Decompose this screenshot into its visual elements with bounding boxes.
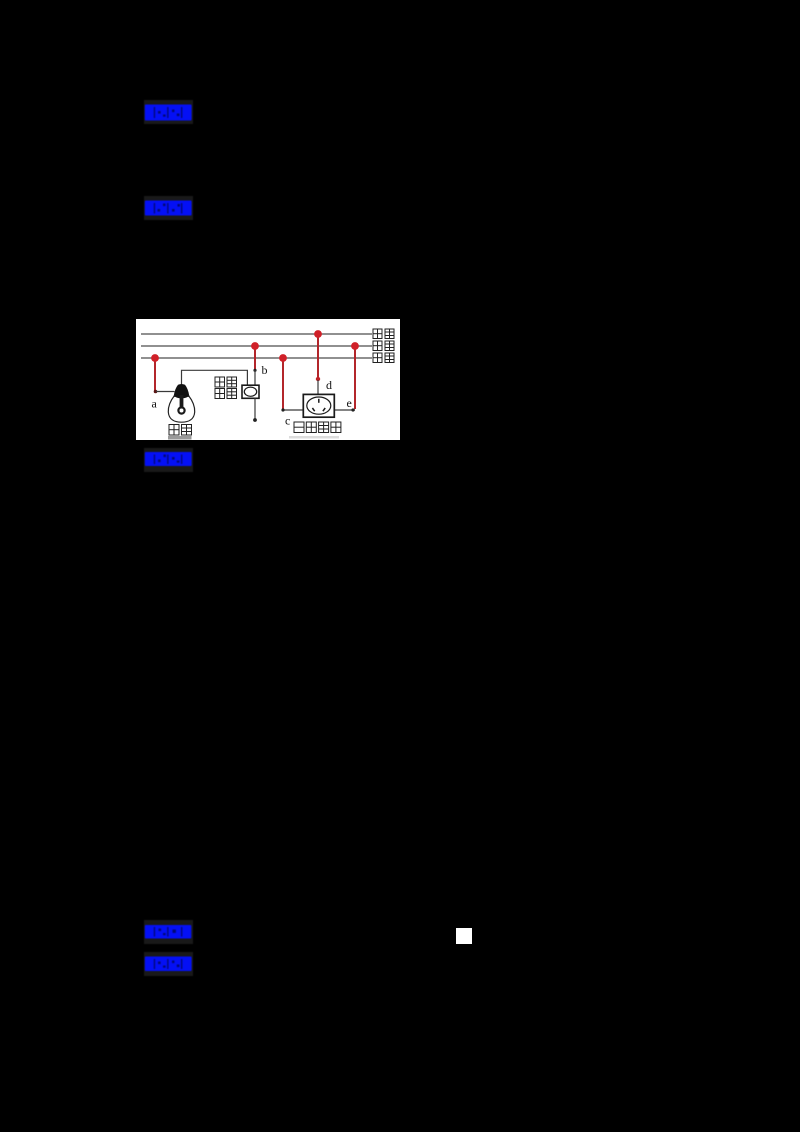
gray strip under socket label — [289, 436, 339, 439]
mains wire: neutral line (lingxian) — [141, 357, 372, 359]
three-hole socket box — [303, 394, 334, 417]
wire d dot to socket top — [317, 380, 319, 394]
bulb stem — [180, 395, 184, 408]
socket right slot — [323, 408, 325, 411]
svg-text:e: e — [347, 396, 352, 410]
red drop wire to node e — [354, 346, 356, 409]
junction dot on live (switch) — [251, 342, 259, 350]
svg-text:d: d — [326, 378, 332, 392]
node e dot — [351, 408, 354, 411]
label lingxian (neutral) — [373, 353, 394, 363]
top wire bulb to switch — [182, 370, 248, 385]
small red dot end of d wire — [316, 377, 320, 381]
svg-text:a: a — [152, 397, 158, 411]
pull switch knob — [244, 387, 256, 396]
label huoxian (live) — [373, 341, 394, 351]
label dengpao (bulb) — [169, 425, 192, 436]
pull cord end dot — [253, 418, 257, 422]
socket left slot — [312, 408, 314, 411]
label [jieda] blue tag 2 — [144, 196, 193, 220]
svg-text:c: c — [285, 414, 290, 428]
svg-text:b: b — [262, 363, 268, 377]
bulb cap — [173, 384, 189, 398]
gray strip under dengpao — [168, 436, 192, 440]
label sankong chazuo (3-hole socket) — [294, 422, 341, 433]
socket earth slot — [318, 399, 320, 403]
red drop wire to node d — [317, 334, 319, 378]
label dixian (ground) — [373, 329, 394, 339]
mains wire: live line (huoxian) — [141, 345, 372, 347]
wire node b into switch — [254, 370, 256, 385]
label lashian kaiguan (pull switch) — [215, 377, 237, 399]
junction dot on neutral (socket) — [279, 354, 287, 362]
bulb glass — [168, 396, 194, 423]
junction dot on ground — [314, 330, 322, 338]
label [dianping] blue tag 3 — [144, 448, 193, 472]
pull switch box — [242, 385, 259, 398]
red drop wire to node c — [282, 358, 284, 409]
red drop wire to node b — [254, 346, 256, 369]
label [fenxi] blue tag 1 — [144, 100, 193, 124]
node b dot — [253, 369, 256, 372]
label [kaodian] blue tag 4 — [144, 920, 193, 944]
junction dot on neutral (left) — [151, 354, 159, 362]
red drop wire to node a — [154, 358, 156, 392]
wire node a to bulb — [156, 391, 175, 393]
wire socket to node e — [334, 409, 355, 411]
socket face ellipse — [307, 397, 331, 414]
small dark dot node a — [154, 390, 158, 394]
bulb filament bead — [178, 407, 184, 413]
pull cord — [254, 398, 256, 419]
white checkbox square — [456, 928, 472, 944]
wire node c to socket — [283, 409, 303, 411]
node c dot — [281, 408, 284, 411]
mains wire: ground line (dixian) — [141, 333, 372, 335]
embedded circuit figure (white) — [136, 319, 400, 440]
junction dot on live (socket) — [351, 342, 359, 350]
label [fenxi] blue tag 5 — [144, 952, 193, 976]
